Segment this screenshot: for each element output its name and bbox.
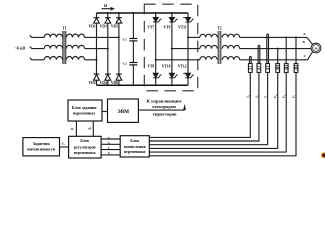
- wire line C: [240, 52, 313, 60]
- svg-text:VT12: VT12: [178, 65, 187, 69]
- svg-text:~6 кВ: ~6 кВ: [15, 45, 25, 50]
- transformer T2 primary winding phase 1: [200, 34, 217, 37]
- svg-text:регуляторов: регуляторов: [74, 146, 96, 150]
- svg-text:VT10: VT10: [162, 65, 171, 69]
- svg-text:ДТ: ДТ: [249, 65, 253, 71]
- svg-text:VD5: VD5: [111, 24, 118, 28]
- transformer T2 secondary winding phase 1: [222, 34, 239, 37]
- wire voltage tap sensor 6 from line A: [295, 37, 297, 63]
- arrow to thyristor gates: [183, 104, 186, 110]
- inverter leg 3 wire: [187, 13, 189, 85]
- svg-text:Блок задания: Блок задания: [72, 105, 97, 110]
- node phase3-leg1: [96, 59, 98, 61]
- node negbus-leg3: [118, 84, 120, 86]
- svg-text:VD3: VD3: [100, 24, 107, 28]
- motor M: [311, 43, 321, 53]
- svg-text:С2: С2: [123, 61, 127, 65]
- transformer T1 primary winding phase 2: [44, 45, 62, 48]
- node capbranch-top: [132, 12, 134, 14]
- transformer T2 primary winding phase 2: [200, 45, 217, 48]
- thyristor VT12: [183, 73, 194, 78]
- svg-text:переменных: переменных: [73, 111, 95, 116]
- feedback labels: [246, 94, 296, 99]
- sensor box 3 (current sensor): [266, 64, 270, 73]
- svg-text:электродам: электродам: [152, 104, 176, 109]
- block Blok regulyatorov peremennykh: [69, 136, 102, 158]
- current Id arrow: [102, 7, 115, 11]
- node negbus-inverterleg2: [171, 84, 173, 86]
- wire voltage tap sensor 4 from line B: [277, 49, 279, 64]
- transformer T1 primary winding phase 3: [44, 57, 62, 60]
- node capbranch-bottom: [132, 84, 134, 86]
- wire feedback 3 (Ic): [149, 72, 267, 144]
- node tap5: [285, 36, 287, 38]
- node phase2-leg2: [107, 48, 109, 50]
- svg-text:ω: ω: [88, 126, 91, 130]
- node tap5-crossC: [285, 59, 287, 61]
- diode VD3: [105, 18, 111, 23]
- wire inverter output phase 3: [156, 59, 200, 61]
- wire zadatchik to regulators: [60, 146, 69, 148]
- svg-text:VD4: VD4: [100, 81, 107, 85]
- node output3: [155, 59, 157, 61]
- svg-text:ω: ω: [71, 127, 74, 131]
- transformer T2 secondary winding phase 2: [222, 45, 239, 48]
- thyristor VT10: [169, 73, 178, 78]
- node bus-inverterleg2: [171, 12, 173, 14]
- wire zadaniya to regulators 1: [75, 121, 77, 136]
- sensor box 5 (voltage sensor): [284, 64, 288, 73]
- sensor box 4 (voltage sensor): [276, 64, 280, 73]
- svg-text:VT8: VT8: [147, 65, 154, 69]
- capacitor C1: [129, 39, 137, 41]
- thyristor VT7: [153, 17, 162, 22]
- svg-text:Т1: Т1: [62, 27, 66, 31]
- sensor box 1 (current sensor): [248, 64, 252, 73]
- node negbus-inverterleg1: [155, 84, 157, 86]
- node bus-leg3: [118, 12, 120, 14]
- svg-text:VT9: VT9: [164, 25, 171, 29]
- block Blok vychisleniya peremennykh: [120, 136, 149, 157]
- transformer T2 secondary winding phase 3: [222, 57, 239, 60]
- current transformer sensor 3 loop on line A: [267, 34, 269, 64]
- node output2: [171, 48, 173, 50]
- svg-text:ДТ: ДТ: [266, 65, 270, 71]
- diode VD5: [116, 18, 122, 23]
- block Zadatchik intensivnosti: [23, 138, 60, 156]
- rectifier leg 1 wire: [96, 13, 98, 85]
- sensor box 2 (current sensor): [257, 64, 261, 73]
- transformer T2 core: [218, 31, 221, 64]
- wire inverter output phase 2: [172, 48, 200, 50]
- svg-text:VT11: VT11: [178, 25, 187, 29]
- rectifier leg 3 wire: [118, 13, 120, 85]
- svg-text:переменных: переменных: [74, 151, 96, 155]
- svg-text:ЭВМ: ЭВМ: [117, 109, 129, 115]
- node bus-leg2: [107, 12, 109, 14]
- inverter dashed enclosure: [144, 4, 198, 91]
- wire phase 3 to rectifier leg 1: [85, 59, 97, 61]
- label to control electrodes: [147, 99, 182, 117]
- block EVM: [108, 99, 139, 122]
- node bus-inverterleg1: [155, 12, 157, 14]
- inverter leg 1 wire: [155, 13, 157, 85]
- transformer T1 core: [63, 31, 66, 64]
- svg-text:Задатчик: Задатчик: [33, 141, 51, 146]
- wire zadaniya to regulators 2: [92, 121, 94, 136]
- svg-text:интенсивности: интенсивности: [27, 146, 56, 151]
- capacitor C2: [129, 63, 137, 65]
- svg-text:VD6: VD6: [111, 81, 118, 85]
- wires vychisleniya to regulators: [101, 139, 120, 155]
- wire capacitor branch: [132, 13, 134, 85]
- diode VD4: [105, 74, 111, 80]
- wire DC negative bus: [97, 84, 189, 86]
- transformer T1 primary winding phase 1: [44, 34, 62, 37]
- wire line B: [240, 48, 312, 50]
- current transformer sensor 1 loop on line C: [250, 57, 252, 64]
- node output1: [187, 36, 189, 38]
- wire DC positive bus: [97, 12, 189, 14]
- svg-text:ДН: ДН: [276, 65, 280, 71]
- thyristor VT9: [169, 17, 178, 22]
- inverter leg 2 wire: [171, 13, 173, 85]
- thyristor VT8: [153, 73, 162, 78]
- node tap6: [295, 36, 297, 38]
- wire feedback 6 (Uc): [149, 72, 296, 155]
- svg-text:переменных: переменных: [124, 150, 146, 154]
- thyristor VT11: [183, 17, 194, 22]
- node negbus-leg2: [107, 84, 109, 86]
- wire phase 1 to rectifier leg 3: [85, 36, 119, 38]
- transformer T1 secondary winding phase 3: [66, 57, 84, 60]
- svg-text:Блок: Блок: [130, 139, 140, 143]
- current transformer sensor 2 loop on line B: [258, 45, 260, 63]
- node tap4: [277, 48, 279, 50]
- wire inverter output phase 1: [188, 36, 200, 38]
- svg-text:Блок: Блок: [80, 139, 90, 143]
- wire feedback 2 (Ib): [149, 72, 259, 141]
- transformer T2 primary winding phase 3: [200, 57, 217, 60]
- svg-text:Id: Id: [103, 4, 107, 8]
- svg-text:М: М: [315, 46, 318, 50]
- wire feedback 4 (Ua): [149, 72, 277, 148]
- wire phase input 2 with terminal tick: [30, 47, 44, 49]
- diode VD2: [94, 74, 100, 80]
- transformer T1 secondary winding phase 1: [66, 34, 84, 37]
- sensor box texts: [249, 65, 299, 71]
- svg-text:тиристоров: тиристоров: [153, 111, 177, 116]
- rectifier leg 2 wire: [107, 13, 109, 85]
- block Blok zadaniya peremennykh: [68, 100, 102, 121]
- wire phase input 1 with terminal tick: [30, 35, 44, 37]
- decorative orange bullet: [321, 152, 325, 158]
- sensor box 6 (voltage sensor): [294, 64, 298, 73]
- svg-text:VD1: VD1: [89, 24, 96, 28]
- svg-text:Т2: Т2: [217, 27, 221, 31]
- wire voltage tap sensor 5 from line A: [285, 37, 287, 63]
- wire phase input 3 with terminal tick: [30, 58, 44, 60]
- svg-text:ДН: ДН: [294, 65, 298, 71]
- svg-text:ДН: ДН: [285, 65, 289, 71]
- wire zadaniya to EVM: [101, 111, 107, 113]
- diode VD6: [116, 74, 122, 80]
- transformer T1 secondary winding phase 2: [66, 45, 84, 48]
- svg-text:К управляющим: К управляющим: [147, 99, 182, 104]
- diode VD1: [94, 18, 100, 23]
- wire EVM to thyristor gates: [138, 109, 184, 111]
- svg-text:VT7: VT7: [147, 25, 154, 29]
- svg-text:ДТ: ДТ: [257, 65, 261, 71]
- wire line A: [240, 37, 313, 44]
- svg-text:С1: С1: [123, 37, 127, 41]
- node tap4-crossC: [277, 59, 279, 61]
- wire feedback 1 (Ia): [149, 72, 250, 137]
- svg-text:вычисления: вычисления: [124, 145, 146, 149]
- labels on vychisleniya-regulator wires: [107, 135, 112, 156]
- node phase1-leg3: [118, 36, 120, 38]
- wire phase 2 to rectifier leg 2: [85, 48, 108, 50]
- wire feedback 5 (Ub): [149, 72, 286, 152]
- svg-text:VD2: VD2: [89, 81, 96, 85]
